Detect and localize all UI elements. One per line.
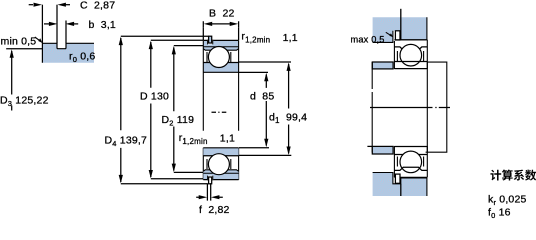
cage lines (bottom): [397, 157, 423, 167]
label 计算系数 (vector paths, bold CJK): [490, 170, 536, 181]
dimension B 22: [203, 21, 238, 40]
housing (top block, blue): [373, 17, 427, 42]
D3 extension line (groove bottom diameter): [6, 48, 42, 50]
shaft shoulder ring (top left, blue): [372, 62, 393, 69]
axis dash-dot between halves: [212, 111, 227, 113]
abutment collar (right, white): [426, 62, 447, 152]
dimension D4 139,7: [119, 36, 209, 183]
cage lines (top): [207, 52, 231, 62]
shaft axis dash-dot: [370, 107, 450, 109]
snap ring cross-section (bottom): [209, 177, 212, 184]
snap ring (bottom, in housing recess): [395, 174, 400, 183]
svg-text:D2 119: D2 119: [162, 114, 195, 128]
snap ring groove notch (top): [208, 40, 213, 45]
shaft shoulder ring (bottom left, blue): [372, 146, 393, 154]
shaft step vertical line: [371, 62, 373, 153]
housing joint line (bottom): [400, 184, 402, 196]
snap ring cross-section (top): [209, 36, 212, 43]
housing joint line (top): [400, 9, 402, 40]
svg-text:d1 99,4: d1 99,4: [269, 111, 307, 125]
ball (bottom): [208, 154, 229, 175]
dimension d1 99,4: [239, 62, 291, 155]
shaft surface stub (bottom left): [367, 145, 372, 147]
dimension D 130: [149, 40, 203, 179]
dimension D2 119: [172, 46, 203, 173]
dimension d 85: [239, 72, 269, 147]
dimension b 3,1 arrows: [44, 23, 49, 25]
dimension C 2,87 arrows: [29, 4, 33, 6]
svg-text:1,1: 1,1: [220, 133, 235, 145]
bearing side faces (continuous through bore side view): [203, 40, 238, 131]
cage lines (top): [397, 51, 423, 61]
snap ring groove notch (bottom): [208, 176, 213, 181]
outer ring (bottom half, blue with raceway lips): [203, 170, 238, 180]
svg-text:B 22: B 22: [209, 8, 235, 20]
svg-text:b 3,1: b 3,1: [89, 19, 116, 31]
svg-text:max 0,5: max 0,5: [351, 35, 385, 45]
outer ring (top half, blue with raceway lips): [203, 40, 238, 50]
side face extension line (C left extension): [41, 5, 43, 43]
cage lines (bottom): [207, 159, 231, 169]
inner ring (top half, blue): [203, 63, 238, 73]
dimension f 2,82 (snap ring groove width, bottom): [196, 183, 223, 200]
min 0,5 leader arrow: [35, 37, 40, 41]
ball (bottom): [400, 151, 422, 173]
svg-text:D3 125,22: D3 125,22: [0, 95, 49, 109]
D3 dimension line stub below text: [11, 106, 13, 111]
housing (bottom block, blue): [373, 173, 427, 197]
svg-text:d 85: d 85: [250, 91, 274, 103]
ring corner outline: [42, 43, 94, 63]
ring corner body (blue): [42, 43, 94, 63]
ball (top): [208, 47, 229, 68]
inner ring (top, white): [394, 61, 427, 63]
svg-text:D 130: D 130: [140, 91, 169, 103]
outer ring (top, white): [394, 40, 427, 69]
inner ring (bottom, white): [394, 146, 427, 177]
max 0,5 leader: [386, 32, 391, 35]
svg-text:1,1: 1,1: [283, 32, 298, 44]
D3 dimension line with up arrow: [11, 51, 13, 95]
svg-text:f 2,82: f 2,82: [199, 204, 230, 216]
ball (top): [400, 44, 422, 66]
svg-text:C 2,87: C 2,87: [80, 0, 115, 12]
snap ring (top, in housing recess): [395, 31, 400, 40]
groove wall extension line (left, also C right extension): [56, 5, 58, 43]
outer ring (bottom, white): [394, 167, 427, 170]
housing bore / face outline (top): [373, 17, 427, 42]
svg-text:D4 139,7: D4 139,7: [105, 135, 148, 149]
housing outline (bottom): [373, 173, 427, 197]
groove wall extension line (right): [65, 21, 67, 44]
inner ring (bottom half, blue): [203, 148, 238, 156]
svg-text:min 0,5: min 0,5: [1, 36, 37, 48]
